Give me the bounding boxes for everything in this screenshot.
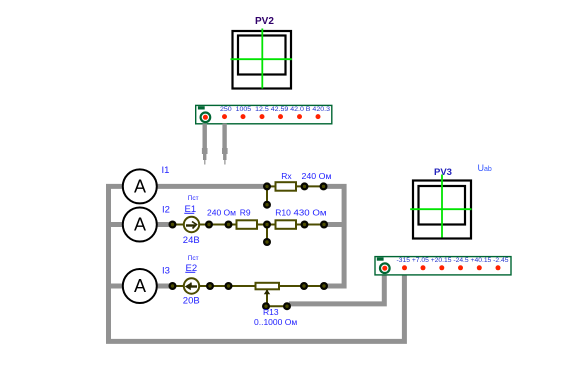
- oscilloscope PV2: [231, 29, 293, 89]
- wire olive R13 to row3 right nodes: [279, 285, 324, 287]
- svg-text:A: A: [134, 276, 146, 296]
- probe XS1-1: [202, 124, 208, 165]
- ammeter PA1: [123, 169, 157, 203]
- resistor R9: [237, 220, 258, 229]
- node row2 left: [169, 221, 177, 229]
- svg-text:24В: 24В: [183, 235, 200, 246]
- wire gray ammeter PA3 to node: [156, 284, 173, 289]
- wire olive R13 wiper down: [266, 290, 268, 306]
- potentiometer R13: [256, 283, 280, 295]
- wire olive Rx to row1 right node: [296, 185, 324, 187]
- ammeter PA3: [123, 269, 157, 303]
- node row1 after Rx: [301, 182, 309, 190]
- wire gray right bus from row1 node down to row3 node: [324, 186, 345, 286]
- node row3 after E2: [206, 282, 214, 290]
- ammeter PA2: [123, 208, 157, 242]
- wire olive wiper horizontal: [267, 305, 287, 307]
- svg-text:I3: I3: [162, 266, 170, 277]
- svg-text:-315 +7.05 +20.15 -24.5 +40.15: -315 +7.05 +20.15 -24.5 +40.15 -2.45: [397, 258, 510, 264]
- wire gray wiper node to terminal strip XS2 dot1: [289, 274, 384, 304]
- svg-text:R9: R9: [240, 208, 251, 218]
- svg-text:Пст: Пст: [188, 195, 199, 202]
- resistor Rx: [276, 182, 297, 191]
- wire gray row2 to right bus: [324, 222, 345, 227]
- source E2: [184, 278, 199, 293]
- node wiper right: [283, 302, 291, 310]
- source E1: [184, 217, 199, 232]
- node row1 right: [320, 182, 328, 190]
- wire gray ammeter PA2 to node: [156, 222, 173, 227]
- node row2 stub end: [263, 238, 271, 246]
- oscilloscope PV3: [410, 175, 471, 239]
- node wiper left: [262, 302, 270, 310]
- svg-text:I2: I2: [162, 205, 170, 216]
- svg-text:A: A: [134, 215, 146, 235]
- node row3 mid: [225, 282, 233, 290]
- wire olive row1 node to Rx: [267, 185, 276, 187]
- wire gray bus to ammeter PA3: [107, 284, 123, 289]
- node row2 junction: [263, 221, 271, 229]
- node row3 right: [320, 282, 328, 290]
- wire olive E1 to R9: [199, 224, 236, 226]
- svg-text:PV2: PV2: [255, 16, 274, 27]
- svg-text:PV3: PV3: [434, 167, 452, 178]
- node row2 after E1: [205, 221, 213, 229]
- node row3 left: [169, 282, 177, 290]
- wire gray row1 ammeter to node: [156, 184, 267, 189]
- terminal strip XS1: [196, 105, 332, 123]
- svg-text:430 Ом: 430 Ом: [294, 208, 327, 218]
- svg-text:Rx: Rx: [281, 171, 292, 181]
- wire gray main loop: left bus, bottom bus, up to terminal strip XS2 dot2: [109, 186, 405, 341]
- svg-text:I1: I1: [162, 165, 170, 176]
- resistor R10: [276, 220, 297, 229]
- svg-text:20В: 20В: [183, 295, 200, 306]
- wire olive R10 to row2 right node: [296, 224, 324, 226]
- node row2 right: [320, 221, 328, 229]
- svg-text:240 Ом: 240 Ом: [207, 208, 236, 218]
- svg-text:A: A: [134, 177, 146, 197]
- terminal strip XS2: [375, 257, 511, 275]
- svg-text:R13: R13: [263, 307, 279, 317]
- node row1 stub end: [263, 201, 271, 209]
- wire olive row1 stub down: [266, 186, 268, 204]
- node row2 after R10: [301, 221, 309, 229]
- wire olive row2 stub down: [266, 225, 268, 243]
- node row1 junction: [263, 182, 271, 190]
- svg-text:Пст: Пст: [188, 255, 199, 262]
- wire gray bus to ammeter PA2: [107, 222, 123, 227]
- svg-text:240 Ом: 240 Ом: [302, 171, 332, 181]
- wire olive R9 to R10: [257, 224, 276, 226]
- svg-text:R10: R10: [275, 208, 291, 218]
- probe XS1-2: [222, 124, 228, 165]
- wire olive E2 to potentiometer R13: [199, 285, 255, 287]
- node row3 after R13: [300, 282, 308, 290]
- svg-text:0..1000 Ом: 0..1000 Ом: [254, 317, 297, 327]
- node row2 before R9: [225, 221, 233, 229]
- svg-text:250 1005 12.5 42.59 42.0 B 4: 250 1005 12.5 42.59 42.0 B 420.3: [220, 107, 331, 113]
- wire olive row3 node to E2: [173, 285, 185, 287]
- wire olive row2 node to E1: [173, 224, 185, 226]
